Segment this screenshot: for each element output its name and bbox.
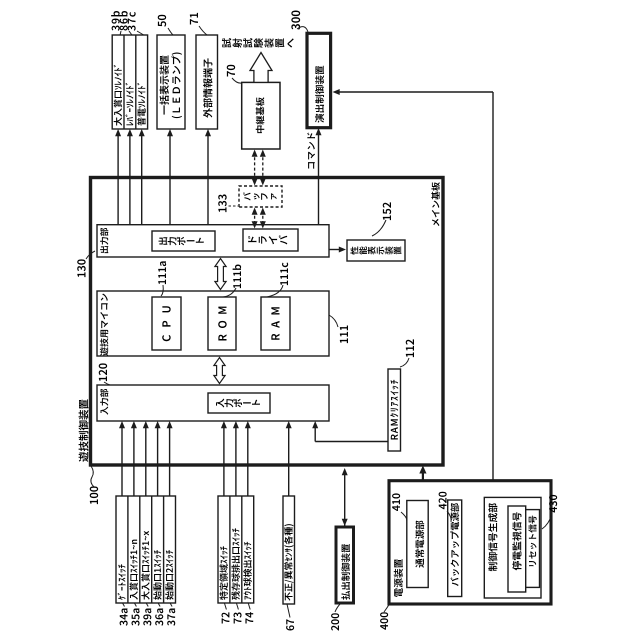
arrow 電源装置 to board (422, 471, 424, 481)
wires 出力部 to solenoids (117, 133, 119, 225)
ref 100 (90, 499, 98, 504)
ref 410 (392, 505, 400, 511)
buffer バッファ 133 (dashed box) (239, 186, 282, 207)
ROM 111b (208, 297, 236, 350)
ref 112 (406, 352, 414, 357)
ref 70 (227, 71, 235, 76)
input port 入力ポート box (208, 393, 270, 413)
wire 払出制御装置 - board (double arrow) (344, 472, 346, 526)
payout control 払出制御装置 200 (336, 527, 354, 603)
label 試射試験装置へ (222, 38, 231, 48)
sensor box 不正／異常センサ(各種) 67 (283, 496, 295, 604)
external info terminal 外部情報端子 71 (196, 35, 218, 129)
ref 111b (233, 284, 241, 289)
ref 430 (549, 507, 557, 513)
switch group 34a-37a boxes (116, 496, 176, 603)
ref 152 (383, 215, 391, 220)
switch group 72-74 boxes (218, 496, 254, 603)
ref 133 (218, 207, 226, 212)
ref 111 (340, 338, 348, 343)
ref 400 (380, 624, 388, 630)
bus arrow 入力部-マイコン (214, 358, 225, 384)
refs 72 73 74 (222, 618, 230, 623)
LED display 一括表示装置(LEDランプ) 50 (157, 35, 185, 129)
label メイン基板 (432, 219, 439, 226)
relay board 中継基板 70 (242, 82, 280, 149)
ref 50 (158, 21, 166, 27)
solenoid boxes 39b 86b 37c (112, 35, 147, 129)
ref 200 (331, 625, 339, 630)
ref 111a (158, 280, 166, 285)
ref 111c (280, 281, 288, 286)
bus arrow マイコン-出力部 (215, 259, 226, 290)
wire RAMクリアスイッチ to 入力部 (315, 441, 388, 443)
normal power 通常電源部 410 (407, 501, 428, 588)
dashed wires バッファ - ドライバ (254, 212, 256, 224)
main board メイン基板 outline (91, 178, 444, 466)
RAM 111c (261, 297, 290, 350)
label 遊技制御装置 (game control device) (79, 452, 89, 462)
performance display 性能表示装置 152 (347, 240, 405, 261)
ref 67 (286, 625, 294, 630)
refs 39b 86b 37c (112, 25, 120, 30)
arrow 出力部 to 性能表示装置 (329, 249, 342, 251)
driver ドライバ box (243, 229, 298, 251)
output section 出力部 (97, 225, 329, 257)
wire 電源装置 to 演出制御装置 (492, 92, 494, 481)
control signal generator 制御信号生成部 430 (484, 497, 541, 598)
refs 34a 35a 39a 36a 37a (120, 620, 128, 625)
wires group2 to 入力部 (223, 425, 225, 497)
hollow arrow 中継基板 to 試射試験装置 (250, 53, 272, 83)
ref 420 (439, 504, 447, 510)
output port 出力ポート box (152, 231, 215, 251)
wires group1 to 入力部 (121, 425, 123, 497)
wire 67 to 入力部 (288, 425, 290, 497)
ref 300 (291, 24, 300, 30)
input section 入力部 (97, 385, 329, 421)
backup power バックアップ電源部 420 (448, 500, 462, 597)
effect control 演出制御装置 300 (307, 33, 331, 127)
dashed wires 中継基板 - バッファ (254, 154, 256, 181)
CPU U111a (152, 297, 181, 350)
microcomputer section 遊技用マイコン (97, 291, 329, 356)
ref 120 (99, 376, 107, 381)
ref 130 (77, 272, 85, 277)
RAM clear switch RAMクリアスイッチ 112 (388, 369, 401, 451)
power supply 電源装置 400 (389, 481, 551, 604)
command wire コマンド (318, 132, 320, 225)
ref 71 (190, 19, 198, 24)
